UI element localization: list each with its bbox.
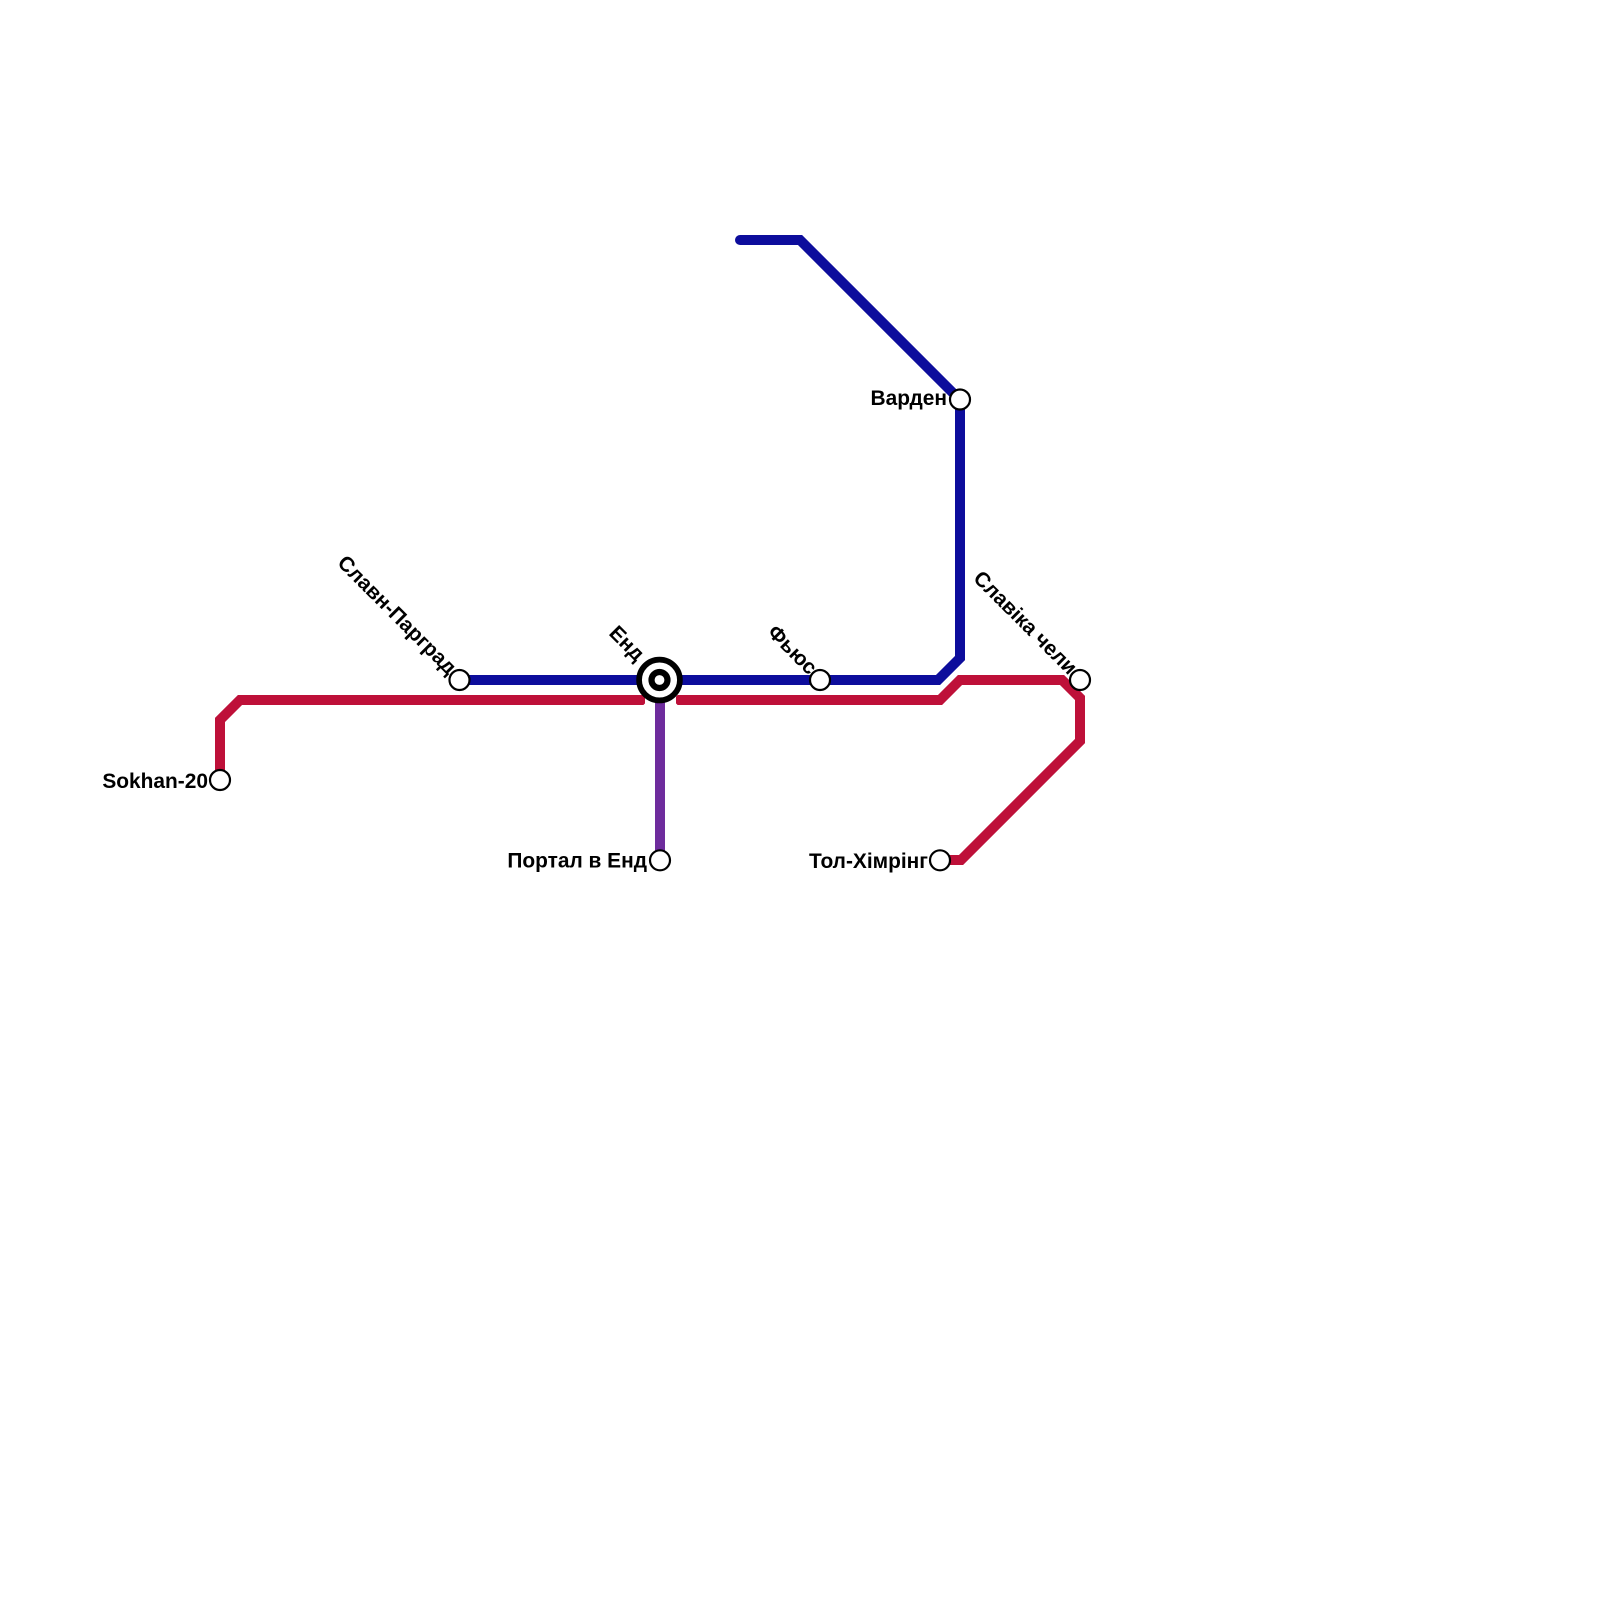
svg-text:Славн-Парград: Славн-Парград bbox=[333, 551, 461, 679]
station Sokhan-20 bbox=[210, 770, 230, 790]
red line east segment (Енд gap to Тол-Хімрінг) bbox=[678, 680, 1080, 860]
station Славн-Парград bbox=[450, 670, 470, 690]
purple line (Енд - Портал в Енд) bbox=[655, 680, 665, 860]
red line west segment (Sokhan-20 to Енд gap) bbox=[220, 700, 643, 780]
svg-text:Варден: Варден bbox=[871, 387, 947, 410]
station Тол-Хімрінг bbox=[930, 850, 950, 870]
interchange Енд outer ring bbox=[639, 660, 680, 701]
blue line (Варден - Славн-Парград) bbox=[460, 240, 960, 680]
svg-text:Sokhan-20: Sokhan-20 bbox=[102, 770, 208, 793]
station Фьюс bbox=[810, 670, 830, 690]
station Варден bbox=[950, 390, 970, 410]
red line east segment chamfered start tip bbox=[676, 695, 679, 705]
svg-text:Славіка чели: Славіка чели bbox=[969, 567, 1082, 680]
svg-text:Портал в Енд: Портал в Енд bbox=[507, 850, 647, 873]
station Славіка чели bbox=[1070, 670, 1090, 690]
station Портал в Енд bbox=[650, 850, 670, 870]
svg-text:Тол-Хімрінг: Тол-Хімрінг bbox=[809, 850, 928, 873]
svg-text:Енд: Енд bbox=[604, 621, 648, 665]
svg-text:Фьюс: Фьюс bbox=[763, 621, 822, 680]
interchange Енд inner ring bbox=[652, 672, 668, 688]
red line west segment chamfered end tip bbox=[642, 695, 645, 705]
